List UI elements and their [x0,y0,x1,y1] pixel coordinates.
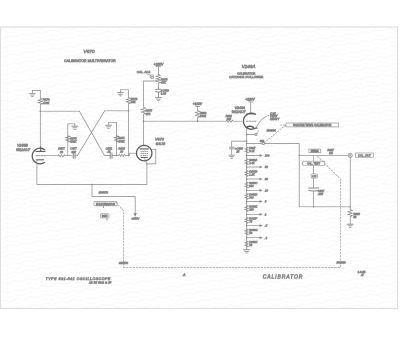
switch contact tap 20 [247,178,262,180]
svg-text:100: 100 [265,154,270,158]
svg-text:390: 390 [71,150,76,154]
resistor R688F [245,216,249,226]
ground (C688) [229,155,235,158]
box MULTIVIBRATOR [94,201,117,205]
wire grid V246B [47,155,59,157]
cross-coupling diagonal B [79,111,104,155]
svg-text:A: A [182,273,186,277]
svg-text:B670: B670 [102,215,108,218]
resistor R688G [245,227,249,237]
wire to SW670 [92,184,135,196]
svg-text:CALIBRATOR MULTIVIBRATOR: CALIBRATOR MULTIVIBRATOR [64,59,116,63]
divider chain line [246,135,248,250]
resistor R688D [245,192,249,201]
ground (R678 top) [120,90,128,93]
wire top right of X [105,110,129,112]
switch contact tap 50 [247,166,262,168]
svg-text:9.1K: 9.1K [249,149,255,153]
svg-text:25: 25 [248,243,252,247]
svg-text:+100V: +100V [193,102,203,106]
ground (top of R670) [32,90,40,93]
svg-text:SW670: SW670 [98,190,108,194]
svg-text:.01: .01 [107,150,111,154]
svg-text:SW686: SW686 [267,128,277,132]
resistor R679 [156,74,160,87]
node cathode junction [246,134,248,136]
node left plate [40,110,79,112]
switch contact tap 2 [247,213,262,215]
svg-text:47K: 47K [146,112,151,116]
svg-text:2: 2 [264,212,267,216]
switch contact tap .2 [247,237,262,239]
svg-text:600: 600 [249,184,254,188]
svg-text:220K: 220K [69,140,76,144]
svg-text:68K: 68K [131,100,136,104]
switch contact (upper stub) [247,134,255,136]
wire cathode V670 [145,158,147,185]
ground (chain bottom) [244,250,250,253]
svg-text:100K: 100K [200,114,206,118]
resistor R688H [245,239,249,249]
svg-text:10: 10 [120,150,123,154]
svg-text:V246B: V246B [17,143,28,147]
svg-text:.005: .005 [318,192,324,196]
svg-text:470K: 470K [118,139,124,143]
svg-text:CATHODE FOLLOWER: CATHODE FOLLOWER [229,75,263,79]
svg-text:HEAVY: HEAVY [270,117,280,121]
ground (R676 top) [68,124,75,156]
resistor R677 (inline) [58,155,72,157]
wire to C687 [313,166,315,188]
wire plate V670 to grid V246A [144,120,227,122]
svg-text:20: 20 [264,177,269,181]
svg-text:AB SN 5001 & UP: AB SN 5001 & UP [88,281,112,284]
capacitor C680 [156,88,162,98]
wire wiper out [264,144,299,207]
box CAL. OUT [355,153,373,157]
resistor R688 [348,207,352,224]
svg-text:47K: 47K [161,81,166,85]
wire output bus [299,154,348,156]
svg-text:100: 100 [227,117,232,121]
svg-text:+225V: +225V [245,98,255,102]
ground (R671 top) [109,122,117,155]
mech link gang (left) [116,202,124,267]
resistor R681 (inline) [226,120,242,122]
svg-text:6AU6: 6AU6 [156,142,166,146]
svg-text:CALIBRATOR: CALIBRATOR [263,274,304,280]
svg-text:V670: V670 [83,49,95,55]
resistor R688A [245,157,249,167]
svg-text:2.4K: 2.4K [248,161,255,165]
resistor R678 [126,90,130,156]
wire + resistor R672 (inline) [112,153,137,156]
svg-text:OFF: OFF [312,176,317,178]
capacitor C688 branch [232,141,247,147]
capacitor C671 [110,153,112,159]
wire screen loop [147,149,156,164]
mech link SW686 [264,125,286,143]
svg-text:50: 50 [265,165,269,169]
resistor R688E [245,203,249,214]
box B670 [100,214,109,218]
svg-text:470K: 470K [43,101,50,105]
svg-text:AT: AT [360,274,364,277]
box SW686 [309,149,321,153]
box OFF [311,174,317,178]
ground (R688) [347,224,353,227]
switch contact tap 100 [247,155,262,157]
svg-text:CAL. TEST: CAL. TEST [307,162,320,166]
wire grid V670 [104,154,110,156]
svg-text:+225V: +225V [154,62,164,66]
switch contact tap .5 [247,225,262,227]
switch contact tap 5 [247,201,262,203]
svg-text:-150V: -150V [131,217,140,221]
-150V supply arrow [134,197,136,216]
box SQUARE WAVE CALIBRATOR [280,124,285,126]
resistor R670 [38,90,42,147]
svg-text:.2: .2 [265,236,268,240]
svg-text:1.2K: 1.2K [249,173,255,177]
ground (C680) [155,98,161,101]
svg-text:CAL. ADJ.: CAL. ADJ. [137,70,151,74]
svg-text:300: 300 [249,196,254,200]
resistor R687 [245,145,249,155]
tube V670 [137,145,152,160]
tube V246B [32,148,44,164]
svg-text:SW670: SW670 [119,261,129,265]
resistor R671 [114,136,118,142]
svg-text:V246A: V246A [242,64,256,69]
svg-text:150: 150 [249,208,254,212]
resistor R675 [141,107,145,145]
svg-text:SW686: SW686 [311,150,320,153]
wire cathode bus [37,183,147,185]
resistor R688C [245,180,249,190]
svg-text:SW686: SW686 [336,261,346,265]
resistor R680 [195,110,199,121]
svg-text:10: 10 [265,188,269,192]
switch contact tap 10 [247,189,262,191]
capacitor C677 [73,153,75,159]
svg-text:10: 10 [60,150,63,154]
wire bottom bus [299,157,350,206]
tube V246A [243,113,255,129]
svg-text:SQUARE WAVE CALIBRATOR: SQUARE WAVE CALIBRATOR [293,123,331,127]
mech link gang (bottom) [123,267,340,269]
svg-text:½12AU7: ½12AU7 [16,148,31,152]
svg-text:½12AU7: ½12AU7 [232,110,247,114]
resistor R676 [66,136,70,142]
wire plate branch V670 [144,81,157,107]
box CAL. TEST [313,155,315,161]
switch SW686 wiper [247,143,262,145]
svg-text:6.25: 6.25 [161,92,167,96]
mech link gang (right) [318,156,341,267]
cross-coupling diagonal A [78,111,105,155]
capacitor C687 [309,188,319,191]
svg-text:MULTIVIBRATOR: MULTIVIBRATOR [96,203,115,206]
svg-text:25: 25 [235,149,239,153]
connector CAL OUT jack [348,153,352,157]
svg-text:CAL. OUT: CAL. OUT [358,153,371,157]
resistor R688B [245,168,249,178]
svg-text:39: 39 [353,215,356,219]
